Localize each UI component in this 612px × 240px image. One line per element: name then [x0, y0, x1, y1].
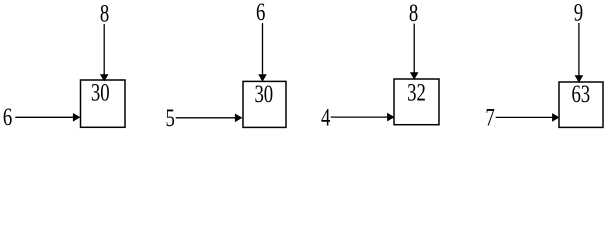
diagram 3: horizontal wire from 4: [331, 116, 388, 118]
diagram 2: input label 6: [256, 0, 265, 26]
diagram 1: box value 30: [91, 78, 110, 106]
svg-text:8: 8: [409, 0, 418, 27]
diagram 1: box node 30: [81, 80, 126, 127]
diagram 3: box node 32: [394, 79, 439, 125]
diagram 2: box node 30: [243, 81, 286, 127]
svg-text:6: 6: [256, 0, 265, 26]
diagram 4: arrowhead into box left: [552, 113, 560, 122]
svg-text:30: 30: [91, 78, 110, 106]
diagram 2: arrowhead into box left: [235, 114, 243, 123]
diagram 1: input label 6: [3, 102, 12, 130]
diagram 4: vertical wire from 9: [578, 23, 580, 76]
svg-text:6: 6: [3, 102, 12, 130]
svg-text:63: 63: [571, 79, 590, 107]
svg-text:8: 8: [100, 0, 109, 27]
diagram 2: vertical wire from 6: [262, 23, 264, 75]
diagram 3: box value 32: [407, 78, 426, 106]
diagram 4: input label 7: [485, 103, 494, 131]
diagram 2: box value 30: [254, 80, 273, 108]
diagram 3: arrowhead into box top: [410, 72, 419, 79]
diagram 1: horizontal wire from 6: [15, 116, 73, 118]
diagram 4: input label 9: [574, 0, 583, 26]
diagram 3: vertical wire from 8: [413, 24, 415, 73]
svg-text:5: 5: [166, 103, 175, 131]
diagram 2: input label 5: [166, 103, 175, 131]
svg-text:4: 4: [321, 103, 330, 131]
diagram 4: arrowhead into box top: [575, 75, 584, 82]
diagram 4: horizontal wire from 7: [496, 116, 553, 118]
diagram 1: arrowhead into box top: [100, 74, 109, 81]
diagram 3: arrowhead into box left: [387, 113, 395, 122]
diagram 4: box value 63: [571, 79, 590, 107]
diagram 2: arrowhead into box top: [258, 74, 267, 81]
diagram 1: vertical wire from 8: [103, 24, 105, 75]
svg-text:9: 9: [574, 0, 583, 26]
diagram 3: input label 8: [409, 0, 418, 27]
svg-text:32: 32: [407, 78, 426, 106]
diagram 4: box node 63: [559, 82, 603, 127]
diagram 1: input label 8: [100, 0, 109, 27]
diagram 1: arrowhead into box left: [73, 113, 81, 122]
diagram 3: input label 4: [321, 103, 330, 131]
svg-text:30: 30: [254, 80, 273, 108]
diagram 2: horizontal wire from 5: [176, 117, 236, 119]
svg-text:7: 7: [485, 103, 494, 131]
